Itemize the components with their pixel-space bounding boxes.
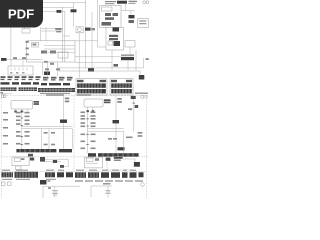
connector strip [38, 88, 75, 92]
small ref squares [2, 182, 6, 186]
left label column [3, 112, 8, 145]
label [41, 51, 47, 54]
small box right [125, 41, 135, 47]
wire [127, 60, 129, 70]
tiny text under strips [2, 179, 56, 180]
internal wires [44, 46, 75, 53]
fuse F1 [73, 3, 75, 10]
sub box relay [58, 52, 68, 58]
fuse label right [65, 98, 70, 100]
label [56, 68, 60, 70]
fuse label [129, 15, 135, 18]
ECU box [84, 99, 103, 107]
junction box [100, 6, 122, 28]
inline connector [88, 68, 94, 71]
relay box [84, 157, 102, 168]
strip labels [76, 170, 136, 171]
switch S1 [55, 28, 62, 32]
label [129, 1, 138, 4]
inline connector dark [60, 120, 67, 123]
label [13, 57, 17, 59]
label dark [106, 158, 111, 161]
footer text right [135, 93, 148, 95]
wire [129, 47, 131, 55]
label [91, 28, 95, 30]
connector arrow [44, 72, 50, 76]
wire label row 1 [1, 76, 73, 80]
connector strips row [2, 172, 14, 177]
bottom dark bar [98, 153, 139, 156]
wire [111, 50, 113, 70]
wire drop [48, 129, 50, 149]
page circle 2 [146, 1, 149, 4]
inline connector dark [113, 120, 120, 123]
connector strip [1, 87, 17, 91]
label [85, 28, 91, 31]
right branch wire [115, 96, 117, 153]
page ref squares [141, 96, 144, 99]
wire [24, 27, 26, 29]
wire label row 2 [1, 82, 71, 85]
strip labels [2, 170, 64, 171]
relay component [40, 157, 45, 162]
stub wires [88, 107, 93, 111]
label above bar [121, 54, 134, 56]
wire [75, 56, 121, 58]
wire [45, 28, 47, 41]
label [26, 41, 29, 43]
label [22, 57, 26, 59]
bus wires [22, 125, 73, 127]
wire [75, 62, 112, 64]
sub box under [16, 166, 21, 170]
wire drop [123, 131, 125, 153]
wire [42, 62, 44, 75]
tick connectors on main wire [21, 118, 23, 144]
label [45, 68, 49, 70]
wire [85, 0, 87, 68]
inline blob [53, 160, 57, 163]
label [44, 61, 48, 63]
wire pair vertical [63, 7, 70, 62]
battery circuit [43, 185, 80, 187]
PDF badge [0, 0, 43, 28]
ECU box [11, 100, 33, 109]
pump M1 [76, 27, 83, 33]
wire [51, 62, 53, 64]
connector table C2 [110, 78, 133, 95]
connector strips row [75, 172, 86, 178]
label [105, 13, 111, 16]
label text dark [114, 157, 123, 159]
connector plug [134, 162, 140, 167]
ground wire [4, 59, 43, 61]
fuse labels [117, 98, 122, 100]
right branch wire [63, 96, 65, 149]
tick connectors [86, 119, 88, 145]
label [50, 51, 56, 54]
connector strip [19, 87, 38, 91]
label [109, 38, 118, 40]
label [21, 158, 25, 160]
dark label [40, 180, 47, 185]
bar right part [59, 149, 72, 152]
wire main [87, 112, 89, 153]
relay box [12, 157, 29, 166]
fuse header box [102, 7, 113, 11]
footnote line [1, 93, 13, 95]
label [50, 63, 54, 65]
fuse F2 [57, 10, 62, 13]
divider dashed horizontal 3 [1, 171, 146, 173]
blob [60, 165, 64, 168]
label dark [30, 158, 34, 161]
marks [95, 158, 99, 161]
long wire [58, 70, 140, 72]
wire [10, 60, 12, 66]
battery B1 [52, 191, 58, 196]
divider dashed vertical mid [73, 96, 75, 172]
tiny text under strip [40, 93, 70, 94]
wire [135, 50, 137, 71]
wire [143, 58, 145, 68]
wire drop [41, 129, 43, 149]
wire [41, 10, 65, 12]
small box [22, 29, 30, 33]
wire [45, 161, 61, 163]
label [128, 108, 132, 110]
wire [45, 158, 68, 160]
connector plug dark [139, 75, 145, 80]
fuse blob [135, 105, 139, 108]
small comp [108, 41, 113, 45]
wire below badge [10, 27, 12, 60]
inline connector dark 2 [118, 147, 125, 150]
wire [86, 163, 98, 165]
wire [41, 6, 74, 8]
label text [105, 1, 116, 4]
wire [91, 12, 93, 68]
wire [123, 159, 135, 162]
connector face C20 [8, 66, 33, 75]
divider dashed vertical right [146, 96, 148, 198]
label under bar [28, 154, 33, 157]
long wire [58, 67, 144, 69]
page circle 1 [143, 1, 146, 4]
sub box [32, 43, 39, 48]
label [146, 58, 149, 60]
faint outline [107, 160, 133, 170]
wire [41, 2, 86, 4]
wire [75, 40, 98, 42]
label [114, 64, 119, 67]
page circle [141, 183, 145, 187]
wire [98, 0, 107, 47]
connector table C1 [76, 78, 107, 95]
label [109, 35, 118, 37]
wire [139, 71, 141, 75]
label [26, 48, 29, 50]
title [46, 94, 64, 96]
label [105, 17, 114, 20]
ground circuit [91, 185, 112, 187]
wire [41, 27, 63, 29]
label [102, 22, 112, 26]
label [129, 20, 135, 23]
label [104, 99, 111, 101]
box 2 [106, 27, 124, 50]
relay dark K1 [113, 28, 120, 32]
wire [40, 28, 42, 41]
control unit box [27, 41, 76, 62]
divider dashed horizontal [1, 95, 148, 97]
label [1, 58, 7, 61]
relay inner contact [86, 158, 93, 162]
wire [22, 60, 24, 66]
title [77, 94, 91, 96]
page ref box [1, 95, 3, 98]
wire labels [81, 112, 143, 150]
connector box C90 [138, 18, 148, 27]
relay inner contact [15, 158, 21, 162]
wire drop [71, 129, 73, 149]
small bar [88, 153, 96, 156]
wire [78, 33, 80, 78]
label [113, 13, 119, 16]
wire [64, 159, 68, 167]
bottom dark bar [16, 149, 56, 152]
wire [41, 30, 63, 32]
wire top right [121, 4, 135, 15]
divider dashed vertical left [0, 96, 2, 198]
ref label dark [131, 96, 136, 99]
dark bar connector [121, 57, 134, 60]
wire main [21, 113, 23, 149]
wire [57, 62, 59, 76]
coil [106, 191, 111, 194]
legend text row [75, 180, 143, 181]
svg-text:PDF: PDF [8, 6, 34, 21]
wire labels along main [16, 112, 55, 146]
wire [47, 62, 49, 76]
branch wire right [133, 99, 135, 132]
bus wires [88, 128, 124, 130]
label [26, 54, 29, 56]
label [34, 101, 40, 103]
stub wires [16, 109, 28, 113]
dark label [114, 41, 121, 46]
label WEB dark [117, 1, 127, 4]
footnote mark [1, 92, 4, 93]
divider dashed horizontal 2 [1, 156, 148, 158]
